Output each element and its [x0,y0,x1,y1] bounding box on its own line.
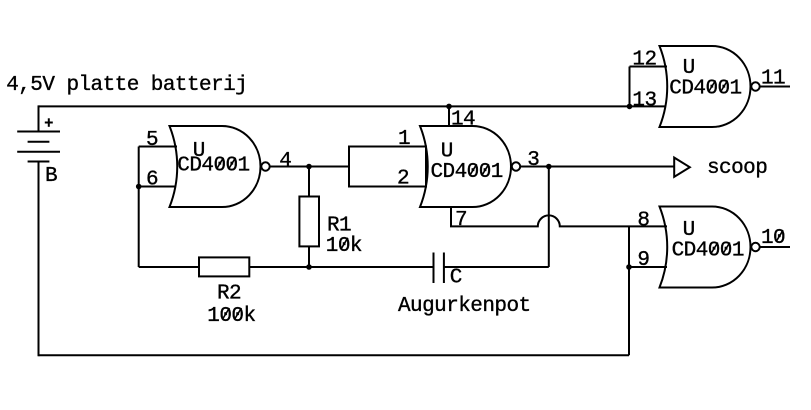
svg-text:CD4001: CD4001 [177,155,249,178]
svg-text:6: 6 [146,169,158,192]
svg-text:3: 3 [527,149,539,172]
svg-text:C: C [450,266,462,289]
svg-text:1: 1 [398,128,410,151]
svg-text:4: 4 [279,150,291,173]
svg-text:7: 7 [455,209,467,232]
svg-text:2: 2 [397,168,409,191]
svg-text:13: 13 [632,90,656,113]
svg-text:CD4001: CD4001 [669,78,741,101]
svg-text:scoop: scoop [707,157,767,180]
svg-text:14: 14 [451,109,475,132]
svg-text:5: 5 [146,129,158,152]
svg-text:U: U [683,57,695,80]
svg-text:8: 8 [637,210,649,233]
svg-text:B: B [45,165,57,188]
svg-text:10: 10 [761,227,785,250]
svg-text:10k: 10k [326,235,362,258]
svg-text:100k: 100k [207,305,255,328]
svg-text:CD4001: CD4001 [672,240,744,263]
svg-text:11: 11 [761,68,785,91]
svg-text:CD4001: CD4001 [431,161,503,184]
svg-text:12: 12 [632,49,656,72]
svg-text:9: 9 [637,249,649,272]
svg-text:R2: R2 [217,282,241,305]
svg-text:Augurkenpot: Augurkenpot [398,295,531,318]
svg-text:4,5V platte batterij: 4,5V platte batterij [6,74,247,97]
